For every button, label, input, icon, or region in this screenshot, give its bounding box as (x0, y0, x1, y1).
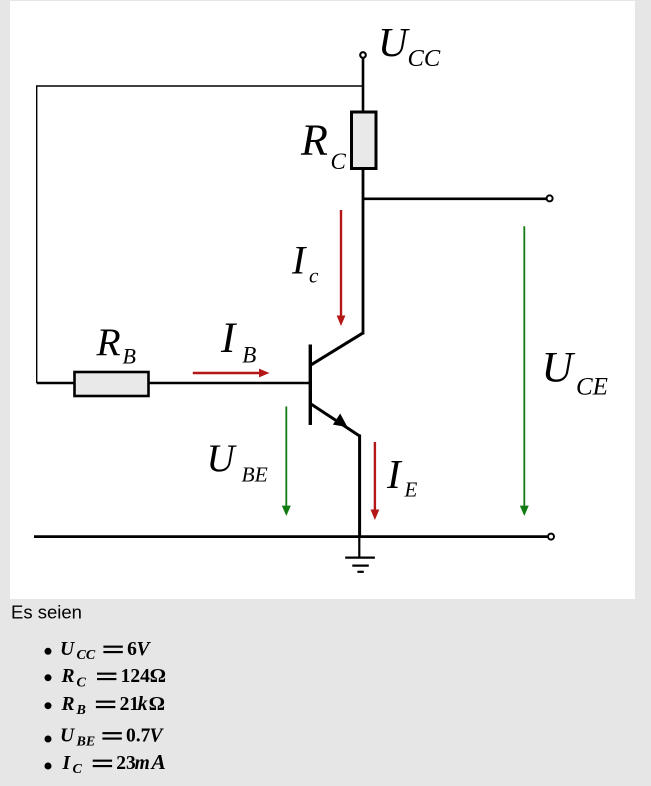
bullet 5 (45, 763, 52, 770)
wire: bottom rail (34, 535, 547, 538)
resistor RB (75, 372, 149, 396)
transistor Q1 collector diagonal (310, 333, 364, 366)
svg-text:Es seien: Es seien (11, 601, 82, 622)
wire: base horizontal (37, 382, 309, 384)
svg-text:C: C (331, 149, 347, 174)
svg-text:k: k (138, 694, 148, 715)
svg-text:C: C (73, 762, 83, 777)
wire: collector vertical (362, 169, 365, 335)
svg-text:B: B (76, 703, 86, 718)
white circuit panel (10, 1, 635, 599)
node output top terminal (547, 195, 553, 201)
transistor Q1 emitter diagonal (310, 403, 360, 436)
svg-text:R: R (61, 694, 75, 715)
svg-text:c: c (309, 263, 319, 287)
svg-text:0.7: 0.7 (126, 726, 151, 747)
voltage arrow UBE (285, 407, 287, 508)
svg-text:R: R (61, 666, 75, 687)
svg-text:R: R (300, 116, 328, 165)
svg-text:R: R (96, 320, 121, 364)
svg-text:I: I (291, 238, 307, 283)
svg-text:C: C (77, 675, 87, 690)
svg-text:23: 23 (116, 753, 136, 774)
svg-text:U: U (207, 437, 238, 480)
resistor RC (352, 112, 377, 169)
ground bar 3 (357, 571, 363, 573)
svg-text:BE: BE (76, 734, 96, 749)
svg-text:I: I (386, 451, 403, 497)
node Ucc terminal (360, 52, 366, 58)
wire: output top horizontal (363, 198, 546, 201)
svg-text:E: E (404, 477, 418, 501)
svg-text:21: 21 (120, 694, 140, 715)
ground bar 2 (352, 564, 369, 566)
transistor Q1 base bar (309, 345, 312, 426)
svg-text:V: V (150, 726, 165, 747)
svg-text:I: I (220, 315, 237, 362)
svg-text:B: B (123, 343, 136, 368)
current arrow IB (193, 372, 261, 374)
svg-text:Ω: Ω (150, 665, 166, 687)
node output bottom terminal (548, 534, 554, 540)
bullet 1 (45, 648, 52, 655)
svg-text:CE: CE (576, 373, 608, 400)
svg-text:I: I (62, 753, 72, 774)
svg-text:Ω: Ω (149, 693, 165, 715)
svg-text:A: A (150, 750, 166, 774)
wire: Ucc vertical to resistor (362, 58, 365, 112)
current arrow IE (374, 442, 376, 512)
svg-text:CC: CC (408, 45, 441, 72)
svg-text:B: B (242, 342, 256, 367)
bullet 2 (45, 674, 52, 681)
svg-text:m: m (135, 753, 150, 774)
wire: thin feedback loop from Ucc rail to base node (37, 86, 363, 383)
svg-text:U: U (542, 344, 576, 392)
wire: emitter vertical (358, 435, 361, 538)
bullet 3 (45, 702, 52, 709)
ground stub (358, 537, 360, 558)
voltage arrow UCE (523, 226, 525, 507)
transistor Q1 emitter arrowhead (333, 414, 348, 428)
ground bar 1 (345, 556, 375, 558)
svg-text:U: U (60, 726, 75, 747)
svg-text:CC: CC (77, 648, 96, 663)
svg-text:U: U (378, 19, 410, 65)
svg-text:U: U (60, 639, 75, 660)
svg-text:V: V (137, 639, 152, 660)
bullet 4 (45, 736, 52, 743)
svg-text:124: 124 (121, 666, 151, 687)
current arrow Ic (340, 210, 342, 318)
svg-text:BE: BE (242, 462, 268, 486)
